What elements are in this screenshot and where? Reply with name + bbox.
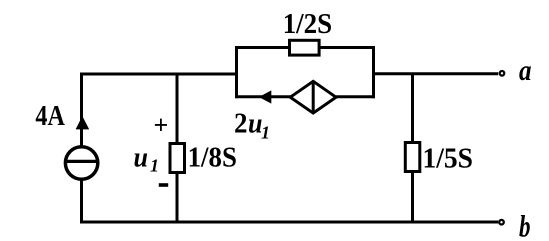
svg-text:1: 1 (150, 156, 159, 176)
arrowhead of controlled source 2u1 (pointing left) (259, 90, 271, 103)
wire: bottom branch right segment (336, 95, 375, 98)
wire: left vertical from corner down to current source top (80, 73, 83, 149)
resistor 1/8S body (170, 144, 185, 173)
diamond internal vertical line (312, 81, 315, 113)
wire: 1/8S branch upper segment (176, 73, 179, 145)
arrow of current source 4A (pointing up) (76, 116, 90, 129)
wire: top-left rail from corner to left node of parallel section (82, 73, 237, 76)
node: left bar of parallel section (235, 46, 238, 98)
svg-text:+: + (154, 111, 169, 140)
wire: 1/5S branch upper segment (411, 73, 414, 144)
wire: top branch left segment to resistor 1/2S (235, 46, 289, 49)
bottom rail wire (80, 221, 498, 224)
svg-text:1/8S: 1/8S (188, 142, 237, 174)
svg-text:a: a (519, 54, 532, 87)
terminal a circle (500, 71, 505, 76)
svg-text:1: 1 (261, 123, 270, 143)
resistor 1/2S body (290, 40, 320, 55)
wire: right rail from parallel section to terminal a (374, 72, 499, 75)
wire: 1/5S branch lower segment (411, 172, 414, 224)
svg-text:1/2S: 1/2S (283, 8, 333, 40)
resistor 1/5S body (405, 143, 420, 172)
current source circle (65, 147, 97, 179)
wire: bottom branch left segment with arrow (235, 95, 291, 98)
terminal b circle (499, 220, 504, 225)
wire: 1/8S branch lower segment (176, 173, 179, 224)
svg-text:4A: 4A (35, 101, 65, 132)
svg-text:b: b (519, 209, 531, 241)
svg-text:1/5S: 1/5S (423, 143, 474, 175)
wire: top branch right segment from resistor 1/2S (321, 46, 376, 49)
wire: from current source bottom to bottom rail (80, 179, 83, 224)
dependent source U (diamond) (290, 81, 336, 113)
svg-text:u: u (134, 141, 149, 173)
chord line inside current source (66, 160, 98, 163)
minus sign of u1 (159, 183, 168, 187)
svg-text:2: 2 (234, 109, 248, 140)
node: right bar of parallel section (372, 46, 375, 98)
